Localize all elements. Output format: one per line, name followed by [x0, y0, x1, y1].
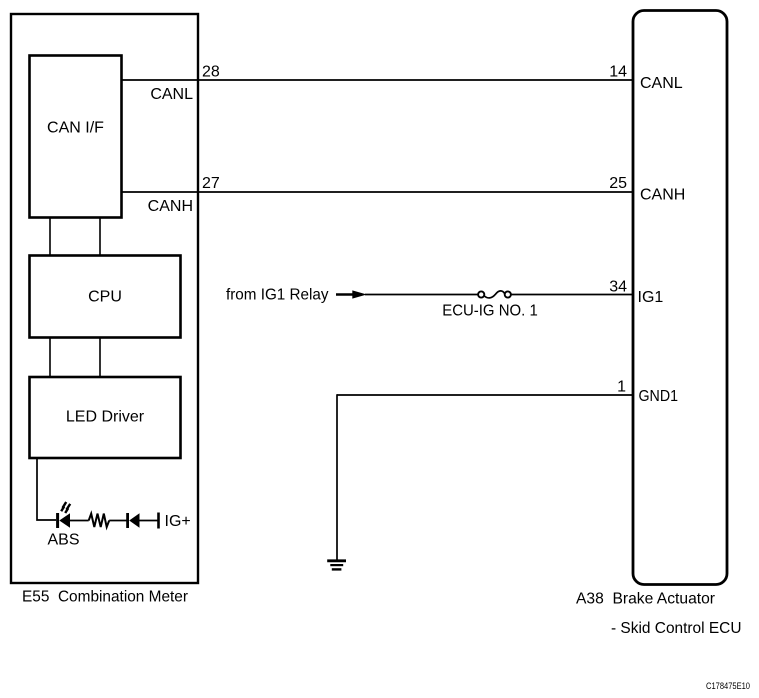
- fuse ECU-IG NO. 1 right terminal circle: [505, 291, 511, 297]
- svg-text:A38 Brake Actuator: A38 Brake Actuator: [576, 591, 716, 608]
- wire CPU to LED Driver left: [49, 338, 51, 377]
- svg-text:28: 28: [202, 64, 220, 81]
- svg-text:25: 25: [609, 175, 627, 192]
- wire IG1 arrow to fuse: [365, 294, 478, 296]
- wire LED to resistor: [70, 520, 89, 522]
- wire resistor to diode: [109, 520, 127, 522]
- svg-text:27: 27: [202, 175, 220, 192]
- svg-text:E55 Combination Meter: E55 Combination Meter: [22, 589, 189, 606]
- wire LED Driver to LED: [37, 458, 56, 520]
- wire CAN I/F to CPU right: [99, 218, 101, 255]
- svg-text:C178475E10: C178475E10: [706, 681, 750, 692]
- block E55 Combination Meter outline: [11, 14, 198, 583]
- svg-text:CANH: CANH: [148, 198, 193, 215]
- fuse ECU-IG NO. 1 element curve: [484, 291, 505, 298]
- svg-text:34: 34: [609, 279, 627, 296]
- svg-text:GND1: GND1: [639, 388, 679, 405]
- svg-text:ECU-IG NO. 1: ECU-IG NO. 1: [442, 303, 538, 320]
- fuse ECU-IG NO. 1 left terminal circle: [478, 291, 484, 297]
- svg-text:CANH: CANH: [640, 187, 685, 204]
- svg-text:IG+: IG+: [165, 513, 191, 530]
- resistor: [89, 514, 110, 527]
- svg-text:CAN I/F: CAN I/F: [47, 120, 104, 137]
- LED ABS indicator (diode with emission arrows): [58, 502, 71, 528]
- wire GND1 horizontal: [337, 394, 634, 396]
- svg-text:LED Driver: LED Driver: [66, 409, 145, 426]
- ground: [327, 561, 346, 570]
- block CAN I/F: [30, 56, 122, 218]
- block LED Driver: [30, 377, 181, 458]
- wire CPU to LED Driver right: [99, 338, 101, 377]
- wire fuse to IG1 pin: [511, 294, 634, 296]
- wire CANH horizontal: [122, 191, 634, 193]
- wire diode to IG+ terminal: [140, 520, 159, 522]
- wire IG1 arrow tail: [336, 293, 354, 295]
- wire CAN I/F to CPU left: [49, 218, 51, 255]
- svg-text:CPU: CPU: [88, 289, 122, 306]
- svg-text:CANL: CANL: [640, 75, 683, 92]
- svg-text:from IG1 Relay: from IG1 Relay: [226, 287, 329, 304]
- svg-text:CANL: CANL: [150, 86, 193, 103]
- svg-text:1: 1: [617, 379, 626, 396]
- wire GND1 vertical drop: [336, 394, 338, 560]
- svg-text:ABS: ABS: [48, 532, 80, 549]
- terminal bar IG+: [157, 513, 160, 529]
- svg-text:14: 14: [609, 64, 627, 81]
- block CPU: [30, 256, 181, 338]
- diode IG+ feed: [128, 513, 140, 528]
- wire CANL horizontal: [122, 79, 634, 81]
- block A38 Brake Actuator - Skid Control ECU connector: [633, 11, 727, 585]
- svg-text:IG1: IG1: [638, 289, 664, 306]
- arrow head IG1 feed: [352, 290, 367, 298]
- svg-text:- Skid Control ECU: - Skid Control ECU: [611, 620, 742, 637]
